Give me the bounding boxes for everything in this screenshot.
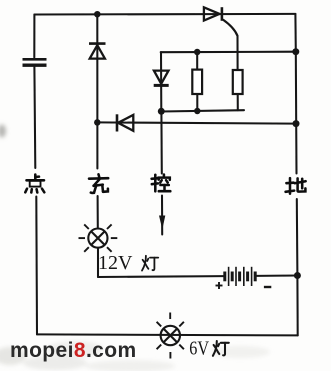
svg-text:12V: 12V bbox=[98, 252, 133, 274]
svg-text:6V: 6V bbox=[189, 338, 209, 360]
svg-text:mopei8.com: mopei8.com bbox=[10, 339, 137, 362]
